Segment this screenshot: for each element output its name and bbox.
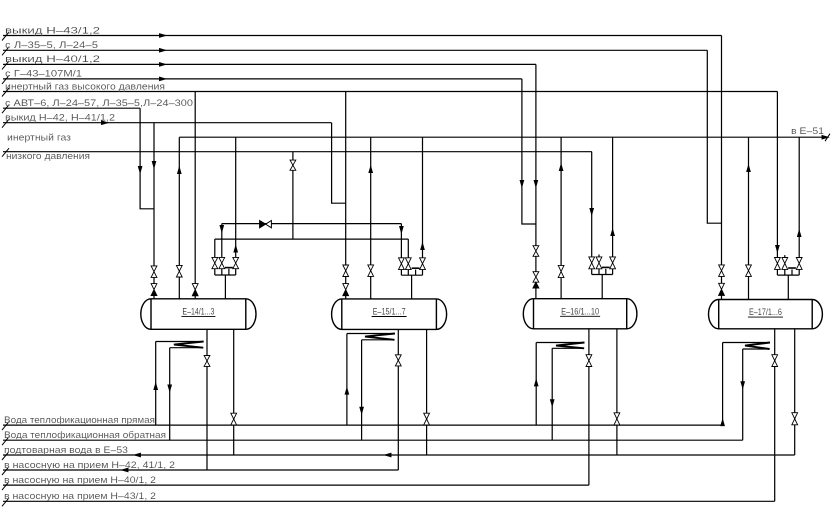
svg-text:Е–16/1...10: Е–16/1...10 [561, 306, 599, 316]
wire line 1 (выкид Н-43/1,2) [3, 35, 722, 37]
valve E-16 inlet1 lower [533, 272, 539, 277]
wire E-15 manifold stub1 from crossover [400, 224, 402, 258]
wire E-14 manifold stub1 [214, 239, 216, 257]
svg-text:с Л–35–5, Л–24–5: с Л–35–5, Л–24–5 [5, 40, 98, 50]
valve E-14 bottoms drain [231, 413, 237, 419]
wire pumpline Н-40 [3, 484, 589, 486]
wire water supply line [3, 424, 723, 426]
wire branch from line 9 to lower crossover [292, 152, 294, 239]
wire E-15 manifold capped stub [415, 270, 417, 276]
svg-text:низкого давления: низкого давления [6, 151, 90, 161]
valve E-16 inlet2 [558, 265, 564, 271]
valve E-15 drain [395, 355, 401, 361]
wire E-16 manifold stub4 to inert gas line [612, 137, 614, 257]
wire E-17 bottoms drain [794, 329, 796, 455]
wire crossover lower E-14 to E-15 [215, 238, 408, 240]
svg-text:выкид Н–43/1,2: выкид Н–43/1,2 [5, 25, 100, 35]
wire E-15 drain to pumpline [397, 329, 399, 470]
wire E-17 inlet2 from inert gas line [748, 137, 750, 265]
valve E-14 manifold stub2 [219, 257, 225, 263]
wire E-17 manifold stub2 stub [784, 255, 786, 257]
wire E-17 drain to pumpline [774, 329, 776, 502]
wire crossover upper E-14 to E-15 [222, 223, 402, 225]
wire E-16 bottoms drain [616, 329, 618, 455]
wire line 8 (инертный газ -> в Е-51) [179, 136, 824, 138]
wire E-16 inlet2 from inert gas line [560, 137, 562, 265]
wire E-17 manifold stub1 from line 5 [776, 92, 778, 258]
wire bottoms water line to Е-53 [3, 454, 795, 456]
valve E-16 manifold stub4 [610, 257, 616, 263]
valve E-14 inlet1 upper [151, 266, 157, 272]
wire E-16 inlet1 mid [535, 256, 537, 271]
wire E-14 bottoms drain [233, 329, 235, 455]
wire E-15 manifold header [400, 270, 402, 276]
valve E-17 inlet2 [746, 265, 752, 271]
valve E-15 manifold stub4 [420, 258, 426, 264]
wire E-16 manifold header [591, 269, 593, 275]
wire E-17 manifold stub4 to inert gas line [798, 137, 800, 257]
svg-text:Е–17/1...6: Е–17/1...6 [749, 307, 782, 317]
valve E-16 inlet1 upper [533, 246, 539, 251]
wire E-17 inlet1 to vessel [721, 295, 723, 299]
wire water return line [3, 439, 743, 441]
wire E-15 bottoms drain [426, 329, 428, 455]
wire E-14 inlet2 to vessel [178, 277, 180, 299]
heating coil E-15 [346, 334, 348, 426]
wire E-17 manifold capped stub [791, 269, 793, 275]
valve E-15 inlet1 lower with check [343, 284, 349, 290]
svg-text:инертный газ высокого давления: инертный газ высокого давления [5, 81, 165, 91]
heating coil E-17 [722, 343, 724, 426]
wire E-14 inlet3 to vessel [194, 296, 196, 299]
wire line 9 (низкого давления) [3, 151, 592, 153]
svg-text:подтоварная вода в Е–53: подтоварная вода в Е–53 [4, 445, 128, 455]
svg-text:в Е–51: в Е–51 [791, 126, 824, 136]
valve E-15 manifold stub1 [399, 258, 405, 264]
vessel Е-15/1...7 [332, 299, 447, 330]
wire E-15 manifold stub4 to inert gas line [422, 137, 424, 258]
wire E-14 inlet 3 from line 5 [194, 92, 196, 284]
wire E-16 inlet1 riser from line 3 [535, 64, 537, 245]
wire E-15 manifold stub2 from lower crossover [407, 239, 409, 258]
vessel Е-17/1...6 [709, 300, 823, 329]
wire E-14 manifold capped stub [228, 269, 230, 275]
wire E-15 inlet1 riser from line 5 [345, 92, 347, 266]
valve E-17 inlet1 upper [719, 265, 725, 271]
heating coil E-14 [155, 342, 157, 426]
wire line 3 (выкид Н-40/1,2) [3, 63, 536, 65]
wire E-14 drain to pumpline [206, 329, 208, 470]
valve E-15 manifold stub2 [405, 258, 411, 264]
wire E-14 manifold stub4 to inert gas line [235, 137, 237, 257]
vessel Е-14/1...3 [141, 299, 256, 330]
valve E-17 manifold stub4 [796, 258, 802, 264]
wire E-14 manifold stub2 from crossover [221, 224, 223, 258]
svg-text:Е–14/1...3: Е–14/1...3 [182, 306, 214, 316]
valve E-16 manifold stub2 [596, 257, 602, 263]
valve E-17 manifold stub1 [775, 258, 781, 264]
wire drop from line 4 with jog [522, 79, 536, 224]
wire pumpline Н-43 [3, 500, 775, 502]
wire E-16 manifold drop to vessel [601, 275, 603, 299]
valve E-17 bottoms drain [792, 413, 798, 419]
valve E-17 inlet1 lower with check [719, 283, 725, 289]
valve on line-9 branch [290, 160, 296, 165]
wire drop from line 6 at x=140 with jog [140, 108, 154, 209]
wire E-15 inlet1 mid [345, 277, 347, 284]
wire E-14 inlet 2 from inert gas line [178, 137, 180, 265]
check E-16 inlet1 triangle [533, 282, 539, 288]
wire E-17 inlet1 mid [721, 276, 723, 283]
wire E-16 drain to pumpline [588, 329, 590, 485]
svg-text:с АВТ–6, Л–24–57, Л–35–5,Л–24–: с АВТ–6, Л–24–57, Л–35–5,Л–24–300 [5, 98, 193, 108]
wire line 6 (с АВТ-6...) [3, 107, 140, 109]
valve E-15 inlet1 upper [343, 265, 349, 271]
svg-text:инертный газ: инертный газ [7, 132, 71, 142]
svg-text:в насосную на прием Н–43/1, 2: в насосную на прием Н–43/1, 2 [4, 491, 156, 501]
svg-text:Вода теплофикационная обратная: Вода теплофикационная обратная [4, 430, 166, 440]
check valve on upper crossover [260, 221, 266, 228]
wire E-17 inlet1 riser from line 1 [721, 36, 723, 265]
valve E-14 drain [204, 356, 210, 361]
valve E-14 inlet3 with check [192, 284, 198, 290]
heating coil E-16 [535, 343, 537, 426]
wire E-17 manifold header [776, 269, 778, 275]
valve E-16 bottoms drain [614, 413, 620, 419]
valve E-17 manifold stub2 [782, 258, 788, 264]
svg-text:в насосную на прием Н–40/1, 2: в насосную на прием Н–40/1, 2 [4, 475, 156, 485]
valve E-16 drain [586, 355, 592, 361]
wire E-17 inlet2 to vessel [748, 276, 750, 299]
valve E-14 inlet2 [176, 265, 182, 271]
wire line 4 (с Г-43-107М/1) [3, 78, 522, 80]
wire E-16 inlet1 to vessel [535, 288, 537, 299]
wire E-14 inlet1 to vessel [153, 296, 155, 299]
wire E-16 manifold stub1 from line 9 [591, 152, 593, 257]
wire pumpline Н-42,41 [3, 469, 398, 471]
valve E-15 bottoms drain [424, 413, 430, 419]
wire E-15 manifold drop to vessel [411, 275, 413, 299]
wire line 2 (с Л-35-5, Л-24-5) [3, 49, 707, 51]
svg-text:в насосную на прием Н–42, 41/1: в насосную на прием Н–42, 41/1, 2 [4, 460, 175, 470]
wire E-15 inlet2 from inert gas line [370, 137, 372, 265]
wire E-14 manifold header [214, 269, 216, 275]
valve E-15 inlet2 [368, 265, 374, 271]
wire drop from line 7 at x=331.6 with jog [332, 123, 346, 204]
vessel Е-16/1...10 [523, 299, 637, 329]
valve E-16 manifold stub1 [589, 257, 595, 263]
wire line 7 (выкид Н-42, Н-41/1,2) [3, 122, 332, 124]
valve E-14 manifold stub4 [233, 257, 239, 263]
wire E-15 inlet1 to vessel [345, 296, 347, 299]
wire E-16 inlet2 to vessel [560, 278, 562, 299]
wire E-14 manifold drop to vessel [224, 275, 226, 299]
svg-text:Вода теплофикационная прямая: Вода теплофикационная прямая [4, 415, 155, 425]
wire E-16 manifold capped stub [605, 269, 607, 275]
svg-text:выкид Н–42, Н–41/1,2: выкид Н–42, Н–41/1,2 [5, 113, 115, 123]
wire E-14 inlet1 mid [153, 277, 155, 283]
wire E-17 manifold drop to vessel [787, 275, 789, 299]
svg-text:с Г–43–107М/1: с Г–43–107М/1 [5, 69, 82, 79]
wire E-15 inlet2 to vessel [370, 276, 372, 299]
valve E-17 drain [772, 355, 778, 361]
svg-text:Е–15/1...7: Е–15/1...7 [373, 307, 406, 317]
svg-text:выкид Н–40/1,2: выкид Н–40/1,2 [5, 54, 100, 64]
valve E-14 inlet1 lower with check [151, 284, 157, 290]
wire drop from line 2 with jog [707, 50, 721, 223]
wire E-14 inlet 1 riser from line 7 [153, 123, 155, 266]
wire E-16 manifold stub2 stub [598, 255, 600, 257]
valve E-14 manifold stub1 [212, 257, 218, 263]
wire line 5 (инертный газ высокого давления) [3, 91, 777, 93]
